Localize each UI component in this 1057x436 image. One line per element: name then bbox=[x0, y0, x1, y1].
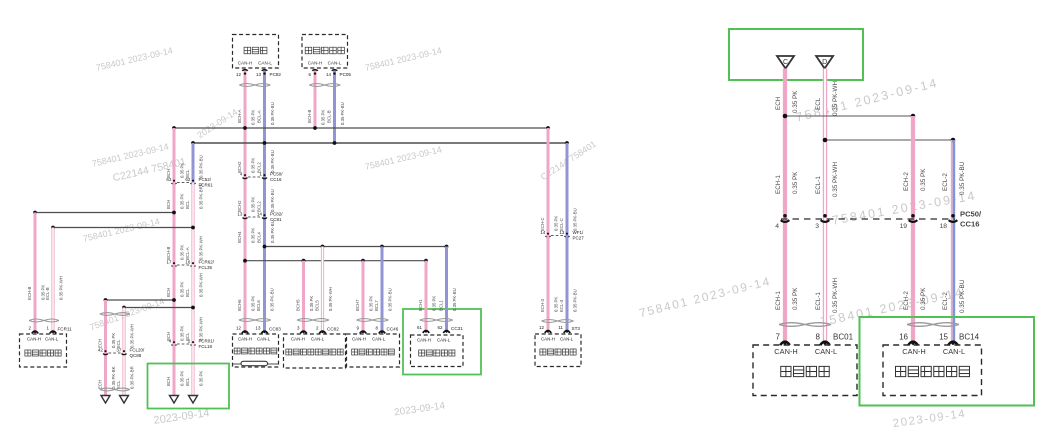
green highlight box around grounds bbox=[148, 364, 230, 409]
box M1 空调压缩机 (A/C compressor) bbox=[20, 334, 67, 367]
wire CAN-L BCL-A 0.35 PK-BU from 诊断口 pin 13 bbox=[263, 70, 266, 332]
svg-text:37: 37 bbox=[116, 347, 122, 352]
svg-text:17: 17 bbox=[166, 259, 172, 264]
wire CAN-H BCH-A 0.35 PK from 诊断口 pin 12 bbox=[244, 70, 247, 332]
svg-text:CAN-L: CAN-L bbox=[257, 337, 271, 342]
svg-text:0.35 PK-BU: 0.35 PK-BU bbox=[959, 279, 966, 313]
svg-text:62: 62 bbox=[437, 325, 443, 330]
svg-text:WF1/: WF1/ bbox=[573, 230, 584, 235]
wire CAN-L bus bbox=[193, 142, 567, 144]
svg-text:0.35 PK-WH: 0.35 PK-WH bbox=[832, 81, 839, 116]
wire BCH 0.35 PK below PC52 bbox=[173, 183, 176, 266]
svg-text:42: 42 bbox=[98, 347, 104, 352]
box M3 车载充电机三合一 (on-board charger 3-in-1) bbox=[284, 334, 346, 368]
ground G2 bbox=[120, 396, 129, 404]
svg-text:BCH: BCH bbox=[166, 200, 171, 209]
svg-text:ECH-B: ECH-B bbox=[27, 286, 32, 300]
wire BCH 0.35 PK below FCR62 bbox=[173, 265, 176, 344]
svg-text:CAN-L: CAN-L bbox=[258, 61, 272, 66]
svg-text:0.35 PK: 0.35 PK bbox=[792, 90, 799, 113]
svg-text:0.35 PK-WH: 0.35 PK-WH bbox=[199, 236, 204, 260]
pin 15 of BC14 bbox=[948, 342, 958, 345]
svg-text:0.35 PK: 0.35 PK bbox=[321, 110, 326, 125]
svg-text:BC14: BC14 bbox=[959, 333, 980, 342]
connector CC46 pins 9 8 bbox=[360, 331, 366, 333]
svg-text:0.35 PK-BU: 0.35 PK-BU bbox=[199, 155, 204, 178]
svg-text:14: 14 bbox=[540, 230, 546, 235]
svg-text:0.35 PK: 0.35 PK bbox=[251, 296, 256, 311]
svg-text:12: 12 bbox=[539, 325, 545, 330]
connector WF1/PC27 pins 14 13 bbox=[551, 235, 564, 237]
svg-text:16: 16 bbox=[899, 333, 908, 342]
wire ECH-3 0.35 PK to 换挡控制器 bbox=[547, 236, 550, 332]
svg-text:PC82: PC82 bbox=[270, 72, 282, 77]
svg-text:16: 16 bbox=[185, 259, 191, 264]
svg-text:0.35 PK: 0.35 PK bbox=[554, 297, 559, 312]
svg-text:0.35 PK-BU: 0.35 PK-BU bbox=[452, 288, 457, 311]
svg-text:0.35 PK-BRN: 0.35 PK-BRN bbox=[199, 183, 204, 209]
svg-text:0.35 PK: 0.35 PK bbox=[251, 158, 256, 173]
svg-text:BCL: BCL bbox=[185, 377, 190, 386]
connector FCR11 pins 2 1 bbox=[32, 331, 38, 333]
svg-text:CAN-L: CAN-L bbox=[311, 337, 325, 342]
connector PC82 pins 12 13 of 诊断口 bbox=[244, 72, 246, 74]
connector FCL20/QC88 pins 42 37 bbox=[109, 352, 122, 354]
box U1 诊断口 (diagnostic port) bbox=[233, 35, 279, 69]
svg-text:0.35 PK-WH: 0.35 PK-WH bbox=[832, 162, 839, 197]
wire branch to ground pair CAN-L bbox=[124, 307, 193, 309]
twisted pair 车载充电机三合一 bbox=[297, 319, 329, 322]
svg-text:BCH4: BCH4 bbox=[237, 231, 242, 243]
pin 7 of BC01 bbox=[780, 342, 790, 345]
svg-text:BCH: BCH bbox=[166, 288, 171, 297]
svg-text:BCH7: BCH7 bbox=[355, 299, 360, 311]
green highlight box top right bbox=[729, 29, 863, 80]
svg-text:CC82: CC82 bbox=[327, 327, 339, 332]
svg-text:0.35 PK-BU: 0.35 PK-BU bbox=[270, 189, 275, 212]
svg-text:CAN-L: CAN-L bbox=[943, 347, 965, 356]
svg-text:PC05: PC05 bbox=[340, 72, 352, 77]
connector CC31 pins 61 62 bbox=[423, 331, 429, 333]
wire BCH5 0.35 PK riser 车载充电机 bbox=[302, 261, 305, 332]
svg-text:BCH-B: BCH-B bbox=[166, 246, 171, 260]
svg-text:CAN-H: CAN-H bbox=[291, 337, 305, 342]
green highlight box bottom right bbox=[860, 317, 1035, 406]
node junctions on CAN-H bus bbox=[172, 126, 176, 130]
box U2 网关控制器 (gateway controller) bbox=[302, 35, 348, 69]
svg-text:PC52/: PC52/ bbox=[199, 177, 212, 182]
pin 4 bbox=[783, 214, 787, 218]
svg-text:BCH5: BCH5 bbox=[296, 299, 301, 311]
connector PC50/CC16 pins 4 1 bbox=[248, 176, 262, 178]
svg-text:QC88: QC88 bbox=[130, 353, 142, 358]
box M2 电池管理系统 (battery management system) bbox=[233, 334, 279, 367]
wire ECL-C 0.35 PK-BU drop from CAN-L bus bbox=[566, 143, 569, 236]
box M8 前电机控制器 (front motor controller) bbox=[883, 345, 982, 396]
svg-text:0.35 PK-BU: 0.35 PK-BU bbox=[270, 150, 275, 173]
pin 16 of BC14 bbox=[908, 342, 918, 345]
wire BCH1 0.35 PK riser 整车控制器 bbox=[425, 261, 428, 331]
connector FCR62/FCL35 pins 17 16 bbox=[177, 264, 190, 266]
svg-text:0.35 PK: 0.35 PK bbox=[180, 194, 185, 209]
wire ECL-2 0.35 PK-BU bbox=[951, 140, 953, 341]
svg-text:CAN-H: CAN-H bbox=[27, 337, 41, 342]
green highlight box around 整车控制器 bbox=[403, 309, 481, 375]
svg-text:CAN-H: CAN-H bbox=[238, 61, 253, 66]
svg-text:ECH: ECH bbox=[98, 380, 103, 389]
svg-text:0.35 PK-BU: 0.35 PK-BU bbox=[270, 220, 275, 243]
svg-text:CAN-H: CAN-H bbox=[902, 347, 925, 356]
svg-text:FCL35: FCL35 bbox=[199, 265, 213, 270]
svg-text:CAN-H: CAN-H bbox=[417, 338, 431, 343]
off-page connector D bbox=[816, 56, 833, 69]
svg-text:0.35 PK: 0.35 PK bbox=[180, 282, 185, 297]
wire BCL1 0.35 PK-BU riser 整车控制器 bbox=[445, 247, 448, 332]
svg-text:FCR01/: FCR01/ bbox=[199, 339, 215, 344]
svg-text:13: 13 bbox=[559, 230, 565, 235]
svg-text:CAN-L: CAN-L bbox=[815, 347, 837, 356]
connector CC82 pins 3 2 bbox=[300, 331, 306, 333]
svg-text:CAN-H: CAN-H bbox=[308, 61, 323, 66]
svg-text:18: 18 bbox=[939, 223, 947, 230]
svg-text:BCH-B: BCH-B bbox=[307, 109, 312, 123]
svg-text:C: C bbox=[783, 59, 788, 66]
connector PC52/FCR61 pins 63 62 bbox=[177, 182, 190, 184]
svg-text:ST3: ST3 bbox=[572, 326, 581, 331]
svg-text:CAN-L: CAN-L bbox=[437, 338, 451, 343]
svg-text:ECL-2: ECL-2 bbox=[942, 173, 949, 191]
svg-text:FCL20/: FCL20/ bbox=[130, 348, 146, 353]
svg-text:BCL4: BCL4 bbox=[257, 232, 262, 243]
box M4 后电机控制器 (rear motor controller) bbox=[347, 334, 400, 367]
wire ECH-B 0.35 PK to 空调压缩机 bbox=[34, 213, 37, 333]
wire lower CAN-L bus bbox=[265, 246, 447, 248]
svg-text:ECH-2: ECH-2 bbox=[903, 291, 910, 310]
wire link ECH to ECH-2 bbox=[785, 115, 913, 117]
svg-text:PC50/: PC50/ bbox=[270, 172, 283, 177]
svg-text:ECL-B: ECL-B bbox=[45, 287, 50, 300]
svg-text:CC16: CC16 bbox=[960, 220, 979, 229]
svg-text:0.35 PK: 0.35 PK bbox=[920, 168, 927, 191]
svg-text:PC82/: PC82/ bbox=[270, 212, 283, 217]
connector PC82/CC81 pins 13 14 bbox=[248, 216, 262, 218]
svg-text:CC46: CC46 bbox=[387, 327, 399, 332]
pin 8 of BC01 bbox=[820, 342, 830, 345]
twisted pair 网关控制器 bbox=[309, 84, 340, 87]
svg-text:CC16: CC16 bbox=[270, 177, 282, 182]
svg-text:0.35 PK-WH: 0.35 PK-WH bbox=[199, 273, 204, 297]
wire CAN-H bus bbox=[174, 127, 548, 129]
svg-text:0.35 PK: 0.35 PK bbox=[180, 163, 185, 178]
wire BCL 0.35 PK-BRN below PC52 bbox=[191, 183, 194, 266]
connector ST3 pins 12 11 bbox=[545, 331, 551, 333]
box M6 换挡控制器 (shift controller) bbox=[535, 334, 581, 367]
svg-text:0.35 PK-WH: 0.35 PK-WH bbox=[130, 324, 135, 348]
wire link ECL to ECL-2 bbox=[825, 139, 953, 141]
ground G3 bbox=[170, 396, 179, 404]
svg-text:ECL-3: ECL-3 bbox=[559, 299, 564, 312]
svg-text:0.35 PK-WH: 0.35 PK-WH bbox=[832, 278, 839, 313]
twisted pair 空调压缩机 bbox=[29, 319, 59, 322]
svg-text:61: 61 bbox=[417, 325, 423, 330]
svg-text:PC27: PC27 bbox=[573, 236, 585, 241]
svg-text:ECL-1: ECL-1 bbox=[815, 292, 822, 310]
svg-text:BCL2: BCL2 bbox=[257, 201, 262, 212]
wire ECH-C 0.35 PK drop from CAN-H bus bbox=[547, 128, 550, 236]
svg-text:FCR62/: FCR62/ bbox=[199, 260, 215, 265]
pin 3 bbox=[823, 214, 827, 218]
svg-text:0.35 PK: 0.35 PK bbox=[554, 216, 559, 231]
twisted pair ground drop lower bbox=[100, 388, 130, 391]
svg-text:0.35 PK: 0.35 PK bbox=[180, 326, 185, 341]
svg-text:ECH-2: ECH-2 bbox=[903, 172, 910, 191]
svg-text:BCL: BCL bbox=[185, 288, 190, 297]
svg-text:0.35 PK: 0.35 PK bbox=[251, 228, 256, 243]
svg-text:CAN-L: CAN-L bbox=[560, 337, 574, 342]
svg-text:CC31: CC31 bbox=[451, 326, 463, 331]
svg-text:BCL-A: BCL-A bbox=[185, 247, 190, 260]
svg-text:ECH: ECH bbox=[775, 96, 782, 110]
svg-text:BCH-A: BCH-A bbox=[237, 109, 242, 123]
svg-text:0.35 PK: 0.35 PK bbox=[180, 371, 185, 386]
svg-text:3: 3 bbox=[815, 223, 819, 230]
svg-text:BCL1: BCL1 bbox=[439, 300, 444, 311]
svg-text:CAN-L: CAN-L bbox=[45, 337, 59, 342]
svg-text:14: 14 bbox=[257, 211, 263, 216]
svg-text:0.35 PK-BU: 0.35 PK-BU bbox=[573, 289, 578, 312]
wire branch to ground pair CAN-H bbox=[106, 299, 175, 301]
resistor termination inside BMS bbox=[233, 363, 242, 365]
ground G4 bbox=[189, 396, 198, 404]
off-page connector C bbox=[777, 56, 794, 69]
box M7 加热模块 (heater module) bbox=[753, 345, 857, 396]
svg-text:CAN-H: CAN-H bbox=[238, 337, 252, 342]
svg-text:CAN-H: CAN-H bbox=[774, 347, 797, 356]
wire BCH7 0.35 PK riser 后电机控制器 bbox=[362, 261, 365, 332]
svg-text:13: 13 bbox=[256, 72, 262, 77]
wire BCL 0.35 PK below FCR01 bbox=[191, 344, 194, 395]
svg-text:BCH6: BCH6 bbox=[237, 299, 242, 311]
svg-text:0.35 PK-BU: 0.35 PK-BU bbox=[388, 288, 393, 311]
svg-text:7: 7 bbox=[776, 333, 781, 342]
svg-text:13: 13 bbox=[255, 326, 261, 331]
wire ECH 0.35 PK bbox=[783, 69, 787, 342]
svg-text:BCL7: BCL7 bbox=[374, 300, 379, 311]
svg-text:FCR11: FCR11 bbox=[58, 327, 73, 332]
svg-text:ECL: ECL bbox=[116, 380, 121, 389]
ground G1 bbox=[101, 396, 110, 404]
svg-text:CAN-H: CAN-H bbox=[352, 337, 366, 342]
svg-text:12: 12 bbox=[236, 326, 242, 331]
twisted pair ground drop upper bbox=[100, 313, 130, 316]
svg-text:BCL: BCL bbox=[185, 200, 190, 209]
wire branch CAN-L to 空调压缩机 bbox=[53, 227, 193, 229]
pin 19 bbox=[911, 214, 915, 218]
svg-text:ECH-1: ECH-1 bbox=[775, 291, 782, 310]
svg-text:0.35 PK: 0.35 PK bbox=[369, 296, 374, 311]
svg-text:BCL6: BCL6 bbox=[256, 300, 261, 311]
svg-text:BCH: BCH bbox=[166, 377, 171, 386]
twisted pair 后电机控制器 bbox=[357, 319, 389, 322]
connector PC05 pins 6 14 of 网关控制器 bbox=[314, 72, 316, 74]
svg-text:FCL18: FCL18 bbox=[199, 344, 213, 349]
svg-text:BCH1: BCH1 bbox=[418, 299, 423, 311]
svg-text:0.35 PK: 0.35 PK bbox=[199, 371, 204, 386]
wire BCL7 0.35 PK-BU riser 后电机控制器 bbox=[381, 247, 384, 333]
svg-text:8: 8 bbox=[816, 333, 821, 342]
svg-text:ECL-1: ECL-1 bbox=[815, 176, 822, 194]
wire ECH-2 0.35 PK bbox=[911, 116, 915, 341]
svg-text:0.35 PK-WH: 0.35 PK-WH bbox=[199, 317, 204, 341]
wire BCL 0.35 PK-WH below FCR62 bbox=[191, 265, 194, 344]
svg-text:D: D bbox=[822, 59, 827, 66]
svg-text:BCL5: BCL5 bbox=[315, 300, 320, 311]
svg-text:4: 4 bbox=[775, 223, 779, 230]
twisted pair BC01 bbox=[779, 323, 831, 327]
svg-text:0.35 PK-BR: 0.35 PK-BR bbox=[130, 366, 135, 389]
svg-text:BCL-A: BCL-A bbox=[257, 110, 262, 123]
node junctions lower CAN-H bus bbox=[243, 259, 247, 263]
svg-text:14: 14 bbox=[326, 72, 332, 77]
wire CAN-L BCL-B 0.35 PK-BU from 网关控制器 pin 14 bbox=[333, 70, 336, 143]
svg-text:15: 15 bbox=[939, 333, 948, 342]
svg-text:0.35 PK: 0.35 PK bbox=[180, 245, 185, 260]
svg-text:11: 11 bbox=[558, 325, 563, 330]
twisted pair 电池管理系统 bbox=[239, 319, 271, 322]
svg-text:12: 12 bbox=[236, 72, 242, 77]
wire BCL 0.35 PK-BU drop to PC52 bbox=[192, 143, 195, 183]
svg-text:0.35 PK: 0.35 PK bbox=[251, 197, 256, 212]
svg-text:ECL: ECL bbox=[815, 97, 822, 110]
node junctions lower CAN-L bus bbox=[263, 245, 267, 249]
wire ECL-B 0.35 PK-WH to 空调压缩机 bbox=[51, 228, 54, 333]
wire ECL-3 0.35 PK-BU to 换挡控制器 bbox=[566, 236, 569, 332]
svg-text:0.35 PK: 0.35 PK bbox=[920, 287, 927, 310]
wire BCH 0.35 PK drop to PC52 bbox=[173, 128, 176, 183]
wire ECL 0.35 PK-WH ground drop bbox=[122, 308, 125, 396]
svg-text:0.35 PK-BU: 0.35 PK-BU bbox=[959, 161, 966, 195]
svg-text:0.35 PK: 0.35 PK bbox=[432, 296, 437, 311]
svg-text:13: 13 bbox=[237, 211, 243, 216]
svg-text:62: 62 bbox=[185, 177, 191, 182]
svg-text:CAN-L: CAN-L bbox=[328, 61, 342, 66]
svg-text:0.35 PK: 0.35 PK bbox=[792, 171, 799, 194]
twisted pair BC14 bbox=[907, 323, 959, 327]
wire ECH 0.35 PK ground drop bbox=[104, 300, 107, 395]
twisted pair 整车控制器 bbox=[420, 319, 453, 322]
svg-text:19: 19 bbox=[899, 223, 907, 230]
connector PC50/CC16 dashed line bbox=[781, 218, 955, 220]
svg-text:CC83: CC83 bbox=[269, 327, 281, 332]
svg-text:0.35 PK: 0.35 PK bbox=[251, 110, 256, 125]
svg-text:0.35 PK-BU: 0.35 PK-BU bbox=[270, 288, 275, 311]
svg-text:ECH-3: ECH-3 bbox=[540, 298, 545, 312]
wire lower CAN-H bus bbox=[245, 260, 426, 262]
svg-text:ECL-2: ECL-2 bbox=[942, 292, 949, 310]
svg-text:0.35 PK-WH: 0.35 PK-WH bbox=[328, 287, 333, 311]
svg-text:BCL-B: BCL-B bbox=[327, 110, 332, 123]
wire BCL5 0.35 PK-WH riser 车载充电机 bbox=[321, 247, 324, 333]
svg-text:CAN-H: CAN-H bbox=[541, 337, 555, 342]
twisted pair 换挡控制器 bbox=[542, 320, 574, 323]
wire ECL 0.35 PK-WH bbox=[823, 69, 827, 342]
svg-text:0.35 PK: 0.35 PK bbox=[309, 296, 314, 311]
wire BCH 0.35 PK below FCR01 bbox=[173, 344, 176, 395]
svg-text:0.35 PK-BU: 0.35 PK-BU bbox=[340, 102, 345, 125]
wire branch CAN-H to 空调压缩机 bbox=[35, 212, 174, 214]
svg-text:BCH2: BCH2 bbox=[237, 200, 242, 212]
twisted pair 诊断口 bbox=[239, 84, 270, 87]
svg-text:0.35 PK: 0.35 PK bbox=[792, 287, 799, 310]
svg-text:BC01: BC01 bbox=[833, 333, 854, 342]
box M5 整车控制器 (vehicle control unit) bbox=[411, 335, 464, 367]
svg-text:0.35 PK-BU: 0.35 PK-BU bbox=[573, 208, 578, 231]
connector CC83 pins 12 13 bbox=[242, 331, 248, 333]
svg-text:ECH-1: ECH-1 bbox=[775, 175, 782, 194]
pin 18 bbox=[951, 214, 955, 218]
svg-text:63: 63 bbox=[166, 177, 172, 182]
svg-text:0.35 PK-BU: 0.35 PK-BU bbox=[270, 102, 275, 125]
node junctions on CAN-L bus bbox=[191, 141, 195, 145]
svg-text:CAN-L: CAN-L bbox=[372, 337, 386, 342]
svg-text:0.35 PK-WH: 0.35 PK-WH bbox=[59, 276, 64, 300]
wire CAN-H BCH-B 0.35 PK from 网关控制器 pin 6 bbox=[314, 70, 317, 128]
connector FCR01/FCL18 pins 4 2 bbox=[177, 343, 190, 345]
svg-text:PC50/: PC50/ bbox=[960, 210, 982, 219]
